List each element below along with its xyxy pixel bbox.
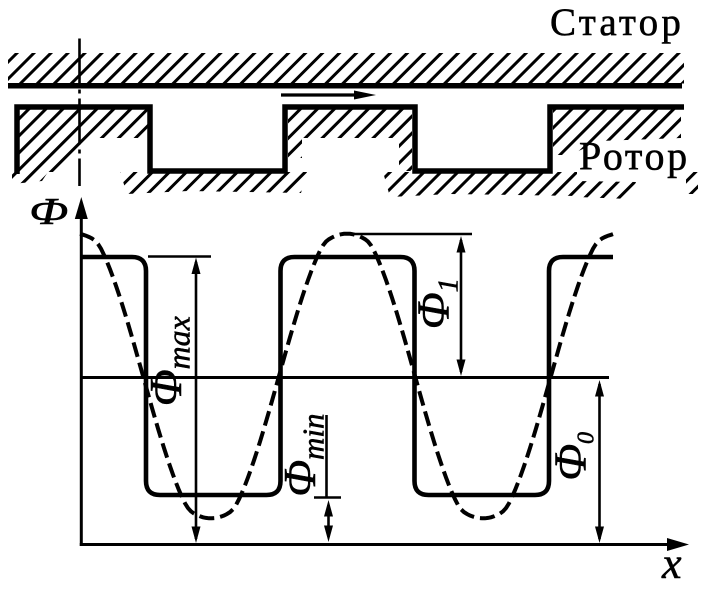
dimension Φmin: extension line — [325, 415, 328, 497]
svg-text:Ф: Ф — [29, 191, 68, 233]
y-axis — [75, 197, 88, 546]
motion arrow in air gap — [281, 91, 376, 100]
dimension Φmin: level tick — [314, 496, 341, 499]
rotor hatch: tooth 1 interior — [19, 109, 148, 172]
mean flux level line Φ0 — [81, 376, 609, 379]
rotor hatch: body band below slots — [12, 172, 48, 184]
center dash-dot line — [78, 39, 81, 187]
stator hatch band — [8, 53, 684, 84]
dimension Φ1: double arrow — [457, 236, 466, 376]
dashed sinusoid flux curve — [80, 234, 613, 519]
rotor hatch: small right piece — [686, 172, 698, 194]
stator bottom surface line — [8, 83, 682, 89]
rotor hatch: tooth 2 interior — [288, 109, 412, 138]
dimension Φ0: double arrow — [595, 380, 604, 543]
svg-text:Статор: Статор — [550, 1, 684, 44]
rotor hatch: tooth 3 interior — [553, 109, 681, 155]
dimension Φmin: double arrow — [324, 500, 333, 542]
svg-text:Ротор: Ротор — [579, 134, 690, 179]
square-wave flux curve — [81, 257, 613, 495]
dimension Φmax: double arrow — [192, 258, 201, 544]
dimension Φ1: top tick at sine peak — [340, 233, 472, 236]
svg-text:x: x — [661, 539, 682, 588]
dimension Φmax: level tick — [148, 255, 211, 258]
x-axis — [80, 538, 689, 551]
rotor profile outline — [17, 107, 684, 174]
